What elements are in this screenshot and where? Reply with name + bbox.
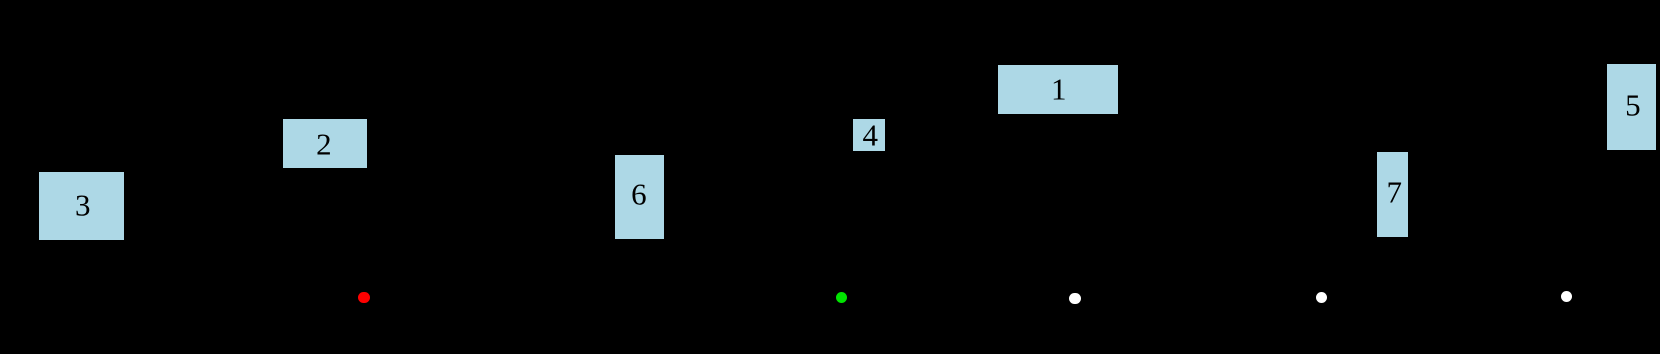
node 6 label [631, 179, 647, 210]
marker green [836, 292, 847, 303]
marker white 1 [1069, 293, 1080, 304]
node 4 label [863, 119, 879, 150]
marker white 2 [1316, 292, 1327, 303]
node 6 box [615, 155, 664, 239]
node 5 box [1607, 64, 1657, 150]
node 3 label [75, 190, 91, 221]
node 2 box [283, 119, 368, 168]
marker white 3 [1561, 291, 1572, 302]
marker red [358, 292, 369, 303]
node 3 box [39, 172, 125, 240]
node 2 label [316, 129, 332, 160]
node 7 box [1377, 152, 1409, 237]
node 4 box [853, 119, 885, 151]
node 1 box [998, 65, 1118, 115]
node 7 label [1386, 176, 1402, 207]
node 5 label [1625, 89, 1641, 120]
node 1 label [1051, 74, 1067, 105]
